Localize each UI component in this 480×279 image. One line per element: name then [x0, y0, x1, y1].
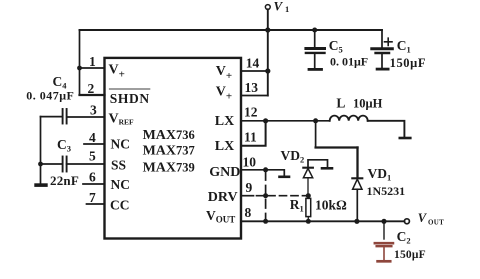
svg-text:CC: CC	[110, 198, 130, 213]
svg-text:0. 047μF: 0. 047μF	[26, 89, 74, 103]
svg-text:9: 9	[246, 180, 253, 195]
svg-text:SS: SS	[111, 157, 126, 172]
svg-text:0. 01μF: 0. 01μF	[330, 55, 368, 69]
svg-text:14: 14	[246, 56, 260, 71]
svg-text:150μF: 150μF	[394, 249, 426, 261]
svg-text:12: 12	[244, 105, 258, 120]
svg-text:LX: LX	[215, 139, 234, 154]
svg-text:22nF: 22nF	[50, 173, 79, 188]
svg-text:SHDN: SHDN	[110, 91, 150, 106]
svg-text:10μH: 10μH	[353, 97, 383, 111]
svg-text:L: L	[336, 96, 345, 111]
svg-text:6: 6	[89, 170, 96, 185]
svg-text:1: 1	[285, 4, 289, 14]
svg-text:3: 3	[90, 103, 97, 118]
svg-text:DRV: DRV	[208, 190, 238, 205]
svg-text:1N5231: 1N5231	[367, 184, 406, 198]
svg-text:NC: NC	[111, 137, 131, 152]
svg-text:GND: GND	[209, 165, 240, 180]
svg-text:MAX739: MAX739	[143, 160, 195, 175]
svg-text:10: 10	[243, 155, 257, 170]
svg-text:11: 11	[244, 130, 257, 145]
svg-text:10kΩ: 10kΩ	[315, 198, 347, 213]
svg-text:LX: LX	[215, 114, 234, 129]
svg-text:2: 2	[88, 81, 95, 96]
svg-text:MAX736: MAX736	[143, 128, 195, 143]
svg-text:8: 8	[245, 205, 252, 220]
svg-text:MAX737: MAX737	[143, 143, 195, 158]
svg-text:V: V	[274, 0, 284, 14]
svg-text:150μF: 150μF	[390, 56, 426, 70]
svg-text:5: 5	[89, 149, 96, 164]
svg-text:1: 1	[89, 54, 96, 69]
svg-text:7: 7	[89, 190, 96, 205]
svg-text:OUT: OUT	[428, 218, 444, 226]
svg-text:13: 13	[245, 80, 259, 95]
svg-text:4: 4	[89, 130, 96, 145]
svg-text:NC: NC	[111, 177, 131, 192]
